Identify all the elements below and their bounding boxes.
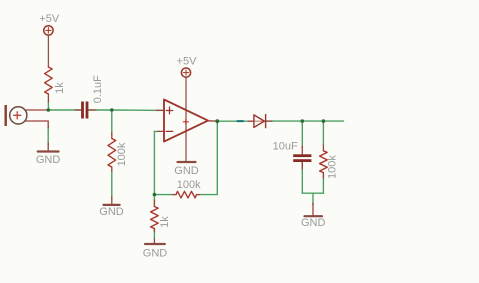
svg-text:GND: GND (301, 217, 326, 229)
svg-text:100k: 100k (327, 155, 339, 179)
svg-text:10uF: 10uF (273, 141, 298, 153)
svg-text:1k: 1k (159, 216, 171, 228)
svg-text:0.1uF: 0.1uF (92, 75, 104, 103)
svg-text:1k: 1k (54, 82, 66, 94)
svg-text:100k: 100k (116, 142, 128, 166)
svg-text:+5V: +5V (177, 55, 198, 67)
svg-text:+5V: +5V (39, 13, 60, 25)
svg-text:GND: GND (99, 206, 124, 218)
svg-text:GND: GND (36, 154, 61, 166)
svg-text:GND: GND (143, 247, 168, 259)
svg-text:GND: GND (174, 165, 199, 177)
svg-text:100k: 100k (177, 179, 201, 191)
